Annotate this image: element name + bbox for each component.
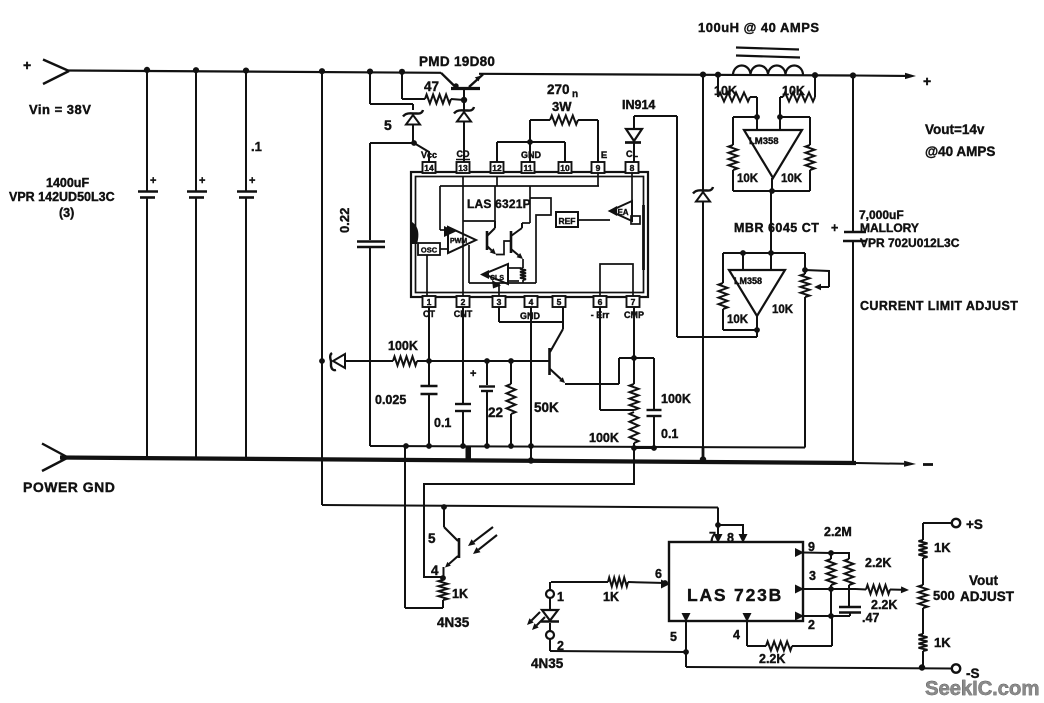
node POWER GND input terminal [42,444,68,472]
svg-text:10K: 10K [782,84,805,98]
wire emitter staircase to CMP [619,358,634,384]
capacitor .47 [839,607,861,616]
label Vout [969,573,998,588]
op-amp U5 LM358 (current limit) [729,253,785,316]
svg-text:2.2M: 2.2M [824,525,852,539]
label Vcc [421,150,437,160]
svg-text:2.2K: 2.2K [865,556,891,570]
junction pins 7/8 node [715,522,721,528]
label VPR 702U012L3C [860,236,960,250]
wire GND bracket top pins [497,142,565,162]
svg-text:100K: 100K [589,431,619,445]
junction top rail x=370 [367,69,373,75]
wire pin2 lead [803,615,850,617]
pin 3 LAS723B [795,569,816,594]
junction pin9 node [828,550,834,556]
svg-text:7: 7 [631,297,636,307]
wire pin13 internal vertical [462,177,464,296]
svg-text:+: + [470,368,476,380]
amp PWM (internal) [444,226,476,253]
pin 8 (top) [626,162,639,173]
svg-text:13: 13 [458,163,468,173]
svg-text:GND: GND [521,150,542,160]
transistor internal Q_b [511,186,530,259]
label 0.025 [375,393,406,407]
junction CMP node [631,355,637,361]
transistor Q1 PMD 19D80 [441,73,483,100]
blob on left border (internal) [412,222,418,244]
capacitor 0.1 (CMP) [634,358,662,448]
label VPR 142UD50L3C [9,190,115,204]
wire pin6-pin7 internal staircase [600,264,633,296]
svg-text:.1: .1 [251,139,262,154]
node Vin + input terminal [23,57,69,84]
resistor 2.2M [831,553,854,606]
label 0.22 (rotated) [337,208,352,233]
pin 5 LAS723B [670,613,691,644]
svg-text:14: 14 [424,163,434,173]
wire pin5 drop [685,621,687,667]
label 10K (fb right) [781,173,803,185]
terminal -S [952,664,980,681]
junction signal gnd x=463 [460,443,466,449]
label 1400uF [46,176,89,190]
junction signal gnd x=406 [403,443,409,449]
svg-text:2.2K: 2.2K [759,652,785,666]
pin 12 (top) [491,162,504,173]
junction top rail x=718 [715,72,721,78]
svg-text:SeekIC.com: SeekIC.com [925,677,1039,700]
svg-text:1: 1 [557,590,564,604]
svg-text:LM358: LM358 [734,276,762,286]
label ADJUST [960,589,1015,604]
resistor 47 [402,95,464,104]
wire rail branch x=370 [370,72,413,110]
junction top rail x=196 [193,67,199,73]
svg-text:6: 6 [598,297,603,307]
label 4N35 (opto transistor) [437,615,470,630]
junction pin2 node [828,613,834,619]
wire pin4 GND drop [530,307,532,461]
svg-text:4: 4 [733,628,740,642]
label 10K (sense right) [782,84,805,98]
potentiometer 500 Vout adjust [919,585,928,634]
wire zener node to Vcc pin14 [414,143,429,162]
svg-text:Vout=14v: Vout=14v [925,122,985,137]
svg-text:9: 9 [596,163,601,173]
svg-text:5: 5 [670,630,677,644]
label Vin [29,102,91,117]
wire pin3 internal stub [498,283,500,296]
wire internal bottom rail [469,245,536,283]
label 5 (opto collector) [428,531,436,546]
junction top rail x=147 [144,67,150,73]
svg-text:REF: REF [559,216,576,226]
wire OSC to pin1 [426,255,428,296]
wire CMP gnd link [634,447,654,449]
svg-text:PMD 19D80: PMD 19D80 [419,54,495,69]
resistor 2.2K (pin4-pin2) [747,616,832,651]
svg-text:10K: 10K [714,84,737,98]
pin 11 (top) [522,162,535,173]
label LAS 6321P [467,197,531,211]
junction 50K top [508,358,514,364]
wire IN914 to current-limit output (x=677) [676,116,678,337]
op-amp U4 LM358 (current sense) [744,117,802,178]
wire pin7/8 loop [718,525,743,542]
junction top rail x=853 [850,72,856,78]
junction pin4 gnd on thin line [528,443,534,449]
capacitor C1 1400uF electrolytic [138,70,158,458]
wire -S line [686,667,952,669]
pin 2 (bottom) [457,296,470,307]
pin 14 (top) [423,162,436,173]
resistor 50K [507,361,516,446]
wire internal right riser [530,198,551,283]
light arrows into 4N35 [468,527,497,554]
resistor 10K (limit fb left) [719,253,758,330]
terminal 2 (LED cathode) [546,631,564,653]
label 10K (fb left) [737,173,759,185]
junction 270n left lead [527,139,533,145]
junction -S node [919,664,925,670]
op-amp U1 LAS 6321P outer box [411,172,648,297]
svg-text:CD: CD [457,149,470,159]
box OSC (internal oscillator) [418,243,448,255]
svg-text:5: 5 [384,117,392,133]
resistor 100K lower (CMP) [630,412,639,448]
resistor 1K (opto emitter) [439,580,448,608]
wire CMP to opto emitter staircase [424,448,634,577]
capacitor 0.025 (CT) [421,307,438,446]
label GND (top) [521,150,542,160]
label .47 [862,611,879,625]
wire +38V top rail (right segment) [479,74,855,76]
label 7,000uF [859,208,904,222]
svg-text:LM358: LM358 [749,136,779,147]
label 2.2M [824,525,852,539]
junction signal gnd x=429 [426,443,432,449]
pin 10 (top) [559,162,572,173]
svg-text:100uH @ 40 AMPS: 100uH @ 40 AMPS [698,20,820,35]
svg-text:(3): (3) [59,206,74,220]
svg-text:+: + [923,73,931,89]
label 47 [424,79,439,94]
label 100K (CT row) [388,339,418,353]
label (3) [59,206,74,220]
svg-text:1: 1 [427,297,432,307]
wire internal top horizontal [440,186,599,230]
svg-text:LAS 6321P: LAS 6321P [467,197,531,211]
svg-text:7,000uF: 7,000uF [859,208,904,222]
svg-text:VPR 142UD50L3C: VPR 142UD50L3C [9,190,115,204]
junction limit output [754,316,760,333]
svg-text:4: 4 [431,563,439,578]
svg-text:VPR 702U012L3C: VPR 702U012L3C [860,236,960,250]
junction base node PMD [453,83,467,103]
svg-text:CL: CL [626,149,638,159]
pin 6 LAS723B [655,567,670,589]
wire limit output to IN914 [677,330,757,337]
pin 6 (bottom) [594,296,607,307]
pin 5 (bottom) [553,296,566,307]
junction CMP gnd a [631,445,637,451]
svg-text:.47: .47 [862,611,879,625]
svg-text:5: 5 [557,297,562,307]
svg-text:1K: 1K [934,540,951,555]
pin 9 (top) [592,162,605,173]
label 10K (limit right) [772,304,794,316]
pin 7 LAS723B [709,530,723,544]
label 100K (upper) [661,392,691,406]
transistor internal Q_a [487,221,496,255]
resistor 10K (fb right) [772,117,815,191]
junction 22uF top [484,358,490,364]
junction opto collector [441,504,447,510]
resistor 10K (sense left) [718,75,757,117]
junction top rail x=703 [700,72,706,78]
svg-text:6: 6 [655,567,662,581]
resistor 100K upper (CMP) [630,358,639,410]
label 270n [547,82,578,100]
svg-text:1K: 1K [452,587,468,601]
svg-text:1K: 1K [603,590,619,604]
label 50K [534,400,559,415]
resistor 10K (sense right) [780,75,815,117]
transistor Q2 (drive) [550,322,566,383]
svg-text:47: 47 [424,79,439,94]
svg-text:2: 2 [461,297,466,307]
svg-text:n: n [572,89,578,100]
capacitor 22uF electrolytic [470,361,495,446]
svg-text:10K: 10K [737,173,759,185]
wire sense output down [770,191,772,270]
connector signal-gnd to rail x=703 [700,448,706,463]
junction CMP gnd b [651,445,657,451]
wire signal ground line [370,446,805,448]
junction Vcc-zener node [411,140,417,146]
svg-text:5: 5 [428,531,436,546]
junction CT row left [319,358,325,364]
svg-text:11: 11 [524,163,533,173]
svg-text:12: 12 [492,163,502,173]
capacitor C3 1400uF electrolytic [237,70,257,458]
pin 4 LAS723B [733,613,752,642]
label 1K (LED) [603,590,619,604]
svg-text:270: 270 [547,82,570,97]
svg-text:4N35: 4N35 [437,615,470,630]
label 2.2K (wiper) [871,598,897,612]
LED emission arrows [527,612,545,630]
label Vout=14v [925,122,985,137]
wire Qa emitter to Qb base [496,241,511,255]
amp EA (internal error amp) [608,173,640,224]
svg-text:Vin = 38V: Vin = 38V [29,102,91,117]
junction top rail x=322 [319,68,325,74]
svg-text:+: + [23,57,31,73]
svg-text:22: 22 [488,405,503,420]
junction top rail x=246 [243,68,249,74]
label 10K (sense left) [714,84,737,98]
label E [601,150,607,161]
label 10K (limit left) [727,314,749,326]
svg-text:@40 AMPS: @40 AMPS [925,144,995,159]
label 0.1 (CMP) [661,427,678,441]
svg-text:2: 2 [808,618,815,632]
label CMP [624,310,644,320]
inductor L1 100uH [733,48,803,76]
wire pin6 stub [665,583,669,584]
svg-text:10: 10 [560,163,570,173]
wire rail to CT-row (x=322) [321,71,323,505]
junction top rail x=402 [399,69,405,75]
wire opto 1K to signal gnd [405,446,443,608]
diode LED (4N35 input) [541,598,559,631]
label 1K (top) [934,540,951,555]
svg-text:IN914: IN914 [622,98,655,112]
svg-text:POWER GND: POWER GND [23,479,115,495]
label -Err [591,310,610,320]
capacitor 7000uF output [843,76,866,462]
junction clamp - input [768,250,774,256]
pin 8 LAS723B [727,531,748,545]
wire pot to signal gnd [804,297,806,448]
wire rail branch x=402 [401,72,403,99]
label 2.2K (pin4) [759,652,785,666]
svg-text:10K: 10K [727,314,749,326]
node Vout + output terminal [923,73,931,89]
svg-text:+: + [249,175,255,187]
label LAS 723B [687,585,783,605]
amp CLS (internal current limit) [480,264,521,289]
junction clamp + input [740,250,746,256]
capacitor 0.1 (CNT) [455,307,471,446]
connector signal-gnd to rail (thick) [466,446,472,462]
svg-text:100K: 100K [388,339,418,353]
svg-text:ADJUST: ADJUST [960,589,1015,604]
wire POWER GND thick rail [60,458,856,464]
resistor 1K (top) [919,523,928,585]
svg-text:10K: 10K [781,173,803,185]
svg-text:1K: 1K [934,635,951,650]
label 5 (zener) [384,117,392,133]
label PMD 19D80 [419,54,495,69]
svg-text:2.2K: 2.2K [871,598,897,612]
label 1K (bottom) [934,635,951,650]
svg-text:LAS 723B: LAS 723B [687,585,783,605]
capacitor C2 1400uF electrolytic [187,70,207,458]
resistor 10K (fb left) [729,117,773,191]
zener D1 (CT row, points left) [330,353,393,370]
svg-text:4: 4 [529,297,534,307]
svg-text:3W: 3W [552,99,572,114]
label 100uH @ 40 AMPS [698,20,820,35]
label MBR 6045 CT [734,221,838,235]
wire top rail to output arrow [855,73,916,79]
svg-text:Vout: Vout [969,573,998,588]
terminal 1 (LED anode) [546,582,564,604]
label CD with overbar [456,149,470,160]
junction CT node [426,358,432,364]
pin 13 (top) [457,162,470,173]
svg-text:+: + [831,221,838,235]
svg-text:3: 3 [809,569,816,583]
wire pin3 lead [803,588,856,590]
label 100K (lower) [589,431,619,445]
pin 4 (bottom) [525,296,538,307]
label 4N35 (LED) [531,656,564,671]
wire CT-row to pin7/8 line [322,505,718,508]
svg-text:+: + [150,175,156,187]
svg-text:OSC: OSC [421,246,438,255]
svg-text:10K: 10K [772,304,794,316]
svg-text:MALLORY: MALLORY [860,221,919,235]
junction pin3 node [828,586,834,592]
pin 1 (bottom) [423,296,436,307]
pin 3 (bottom) [493,296,506,307]
label 1K (opto) [452,587,468,601]
svg-text:500: 500 [933,588,955,603]
svg-text:CURRENT LIMIT ADJUST: CURRENT LIMIT ADJUST [860,299,1018,313]
wire GND bracket bottom pins [499,307,563,322]
svg-text:0.1: 0.1 [434,416,451,430]
junction sense - input [777,114,783,120]
svg-text:0.1: 0.1 [661,427,678,441]
svg-text:+S: +S [966,517,983,532]
svg-text:8: 8 [727,531,734,545]
label @40 AMPS [925,144,995,159]
svg-text:Vcc: Vcc [421,150,437,160]
label 22 [488,405,503,420]
diode D4 IN914 [625,116,677,162]
wire pin6 -Err drop [600,307,634,410]
op-amp U3 LAS 723B box [669,542,803,621]
wire pin9 internal stub [597,173,599,186]
junction pin5/LED node [683,649,689,655]
resistor 100K (CT row) [393,357,549,366]
watermark SeekIC.com [925,677,1039,700]
wire pin12 internal stub [496,177,498,186]
svg-text:100K: 100K [661,392,691,406]
transistor U2a 4N35 phototransistor [444,507,460,578]
label CL [626,149,638,159]
junction top rail x=815 [812,72,818,78]
svg-text:50K: 50K [534,400,559,415]
svg-text:8: 8 [630,163,635,173]
junction signal gnd x=511 [508,443,514,449]
label POWER GND [23,479,115,495]
zener D3 (base clamp) [454,100,474,162]
junction sense + input [754,114,760,120]
resistor 1K (LED) [551,578,665,587]
svg-text:E: E [601,150,607,161]
svg-text:0.025: 0.025 [375,393,406,407]
wire clamp top line [723,252,805,254]
junction sense amp output [769,178,775,194]
label MALLORY [860,221,919,235]
junction opto emitter [440,575,446,581]
potentiometer current limit [801,253,830,297]
label 3W [552,99,572,114]
svg-text:3: 3 [497,297,502,307]
label 0.1 (CNT) [434,416,451,430]
label 500 [933,588,955,603]
wire emitter row [565,383,619,385]
label 4 (opto emitter) [431,563,439,578]
wire pin3-pin2 link [830,589,832,616]
label CURRENT LIMIT ADJUST [860,299,1018,313]
pin 7 (bottom) [627,296,640,307]
